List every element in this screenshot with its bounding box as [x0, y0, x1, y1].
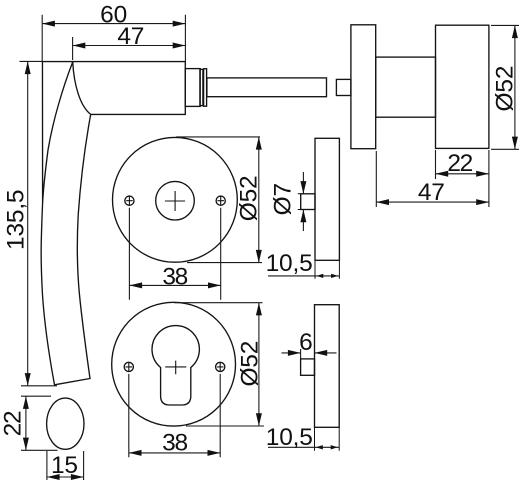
rosette R1 inner hole: [156, 181, 195, 220]
dim 47 extension line: [72, 37, 74, 60]
dim 22 extension lines: [21, 396, 58, 450]
dim 22 line: [25, 396, 27, 450]
svg-text:10,5: 10,5: [266, 424, 313, 451]
dim 15 extension lines: [47, 451, 84, 480]
dim 47 line: [73, 45, 186, 47]
arrows dim O52 r2: [256, 303, 262, 316]
svg-text:22: 22: [447, 150, 472, 177]
svg-text:135,5: 135,5: [2, 190, 29, 250]
arrows dim O7: [300, 181, 306, 194]
knob figure grip: [436, 25, 489, 148]
dim 47 knob extension line: [375, 151, 377, 207]
dim O7 arrow stems: [302, 172, 304, 231]
dim O52 r2 line: [258, 303, 260, 426]
collar ring 2: [204, 69, 207, 107]
screw S2 right: [216, 196, 225, 205]
svg-text:Ø52: Ø52: [491, 66, 518, 112]
dim 38 r1 extension lines: [129, 208, 220, 300]
rosette R2 outer circle: [112, 302, 236, 426]
dim 60 line: [42, 23, 185, 25]
dim 38 r2 extension lines: [129, 374, 220, 457]
dim 10,5 r2 line: [268, 446, 339, 448]
spindle hub knob (side): [301, 194, 315, 210]
square spindle nub: [336, 79, 351, 95]
svg-text:10,5: 10,5: [266, 250, 313, 277]
svg-text:Ø52: Ø52: [236, 341, 263, 387]
rosette R2 center mark: [165, 361, 186, 375]
screw S4 right: [216, 362, 225, 371]
arrows dim 15: [47, 474, 60, 480]
handle neck collar: [185, 69, 200, 107]
dim 22 knob extension lines: [436, 150, 489, 207]
arrows dim 22: [23, 396, 29, 409]
arrows dim 135,5: [25, 61, 31, 74]
dim 10,5 r1 line: [268, 275, 339, 277]
dim O52 r1 extension lines: [176, 137, 262, 263]
dim 6 arrow stems: [282, 349, 337, 359]
svg-text:6: 6: [299, 329, 312, 356]
cylinder hub knob (side): [301, 359, 315, 375]
svg-text:15: 15: [51, 452, 78, 479]
arrows dim 22 knob: [436, 171, 449, 177]
svg-text:Ø7: Ø7: [270, 183, 297, 215]
handle L1 outline (lever side view): [41, 62, 185, 385]
svg-text:47: 47: [117, 23, 144, 50]
arrows dim 38 r1: [129, 282, 142, 288]
dim 15 line: [47, 476, 84, 478]
rosette R1 center mark: [165, 191, 185, 211]
dim 22 knob line: [436, 173, 489, 175]
arrows dim O52 r1: [256, 137, 262, 150]
dim 38 r1 line: [129, 284, 220, 286]
rosette R1 side view bar: [315, 138, 339, 260]
dim 135,5 extension lines: [20, 61, 58, 385]
dim O52 r1 line: [258, 137, 260, 263]
euro profile cylinder hole: [152, 326, 199, 405]
screw S3 left: [124, 362, 133, 371]
arrows dim 6: [288, 350, 301, 356]
svg-text:22: 22: [0, 411, 26, 436]
svg-text:47: 47: [418, 179, 445, 206]
arrows dim 10,5 r1: [316, 274, 323, 278]
collar ring 1: [200, 69, 203, 105]
dim O52 knob line: [514, 25, 516, 149]
arrows dim 10,5 r2: [316, 445, 323, 449]
dim O52 r2 extension lines: [174, 303, 264, 426]
svg-text:38: 38: [162, 263, 187, 290]
knob figure neck: [376, 57, 436, 117]
dim 60 extension lines: [42, 15, 185, 62]
svg-text:Ø52: Ø52: [235, 176, 262, 222]
rosette R1 outer circle: [112, 137, 237, 262]
dim 38 r2 line: [129, 452, 220, 454]
dim 47 knob line: [376, 201, 489, 203]
arrows dim 60: [42, 21, 55, 27]
screw S1 left: [125, 196, 134, 205]
arrows dim 47 knob: [376, 199, 389, 205]
dim O52 knob extension lines: [491, 25, 519, 149]
svg-text:38: 38: [162, 430, 187, 457]
spindle shaft: [207, 78, 327, 97]
arrows dim O52 knob: [512, 25, 518, 38]
grip cross-section ellipse: [47, 398, 84, 449]
knob figure rosette plate: [351, 25, 376, 149]
arrows dim 38 r2: [129, 450, 142, 456]
dim 135,5 line: [27, 61, 29, 385]
arrows dim 47: [73, 43, 86, 49]
rosette R2 side view bar: [315, 305, 340, 428]
